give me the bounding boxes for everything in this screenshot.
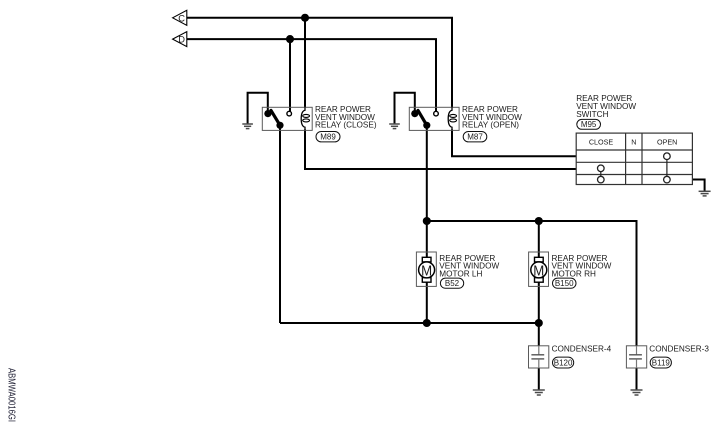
svg-text:CONDENSER-4: CONDENSER-4 bbox=[552, 345, 612, 354]
svg-text:OPEN: OPEN bbox=[657, 138, 677, 147]
svg-text:M: M bbox=[533, 262, 544, 279]
svg-text:RELAY (OPEN): RELAY (OPEN) bbox=[462, 121, 519, 130]
svg-text:M95: M95 bbox=[581, 120, 597, 129]
svg-text:MOTOR LH: MOTOR LH bbox=[439, 270, 482, 279]
svg-text:M87: M87 bbox=[467, 133, 483, 142]
svg-text:B120: B120 bbox=[554, 358, 573, 367]
svg-text:N: N bbox=[631, 138, 636, 147]
svg-text:CLOSE: CLOSE bbox=[589, 138, 614, 147]
svg-text:RELAY (CLOSE): RELAY (CLOSE) bbox=[315, 121, 377, 130]
svg-text:MOTOR RH: MOTOR RH bbox=[552, 270, 597, 279]
svg-text:SWITCH: SWITCH bbox=[576, 110, 608, 119]
svg-text:CONDENSER-3: CONDENSER-3 bbox=[649, 345, 709, 354]
svg-text:B150: B150 bbox=[555, 279, 574, 288]
svg-text:B119: B119 bbox=[652, 358, 671, 367]
svg-text:D: D bbox=[178, 35, 185, 45]
svg-text:M89: M89 bbox=[320, 133, 336, 142]
svg-text:B52: B52 bbox=[445, 279, 460, 288]
svg-text:C: C bbox=[178, 13, 185, 23]
svg-text:M: M bbox=[421, 262, 432, 279]
svg-text:ABMWA0016GI: ABMWA0016GI bbox=[6, 368, 17, 422]
